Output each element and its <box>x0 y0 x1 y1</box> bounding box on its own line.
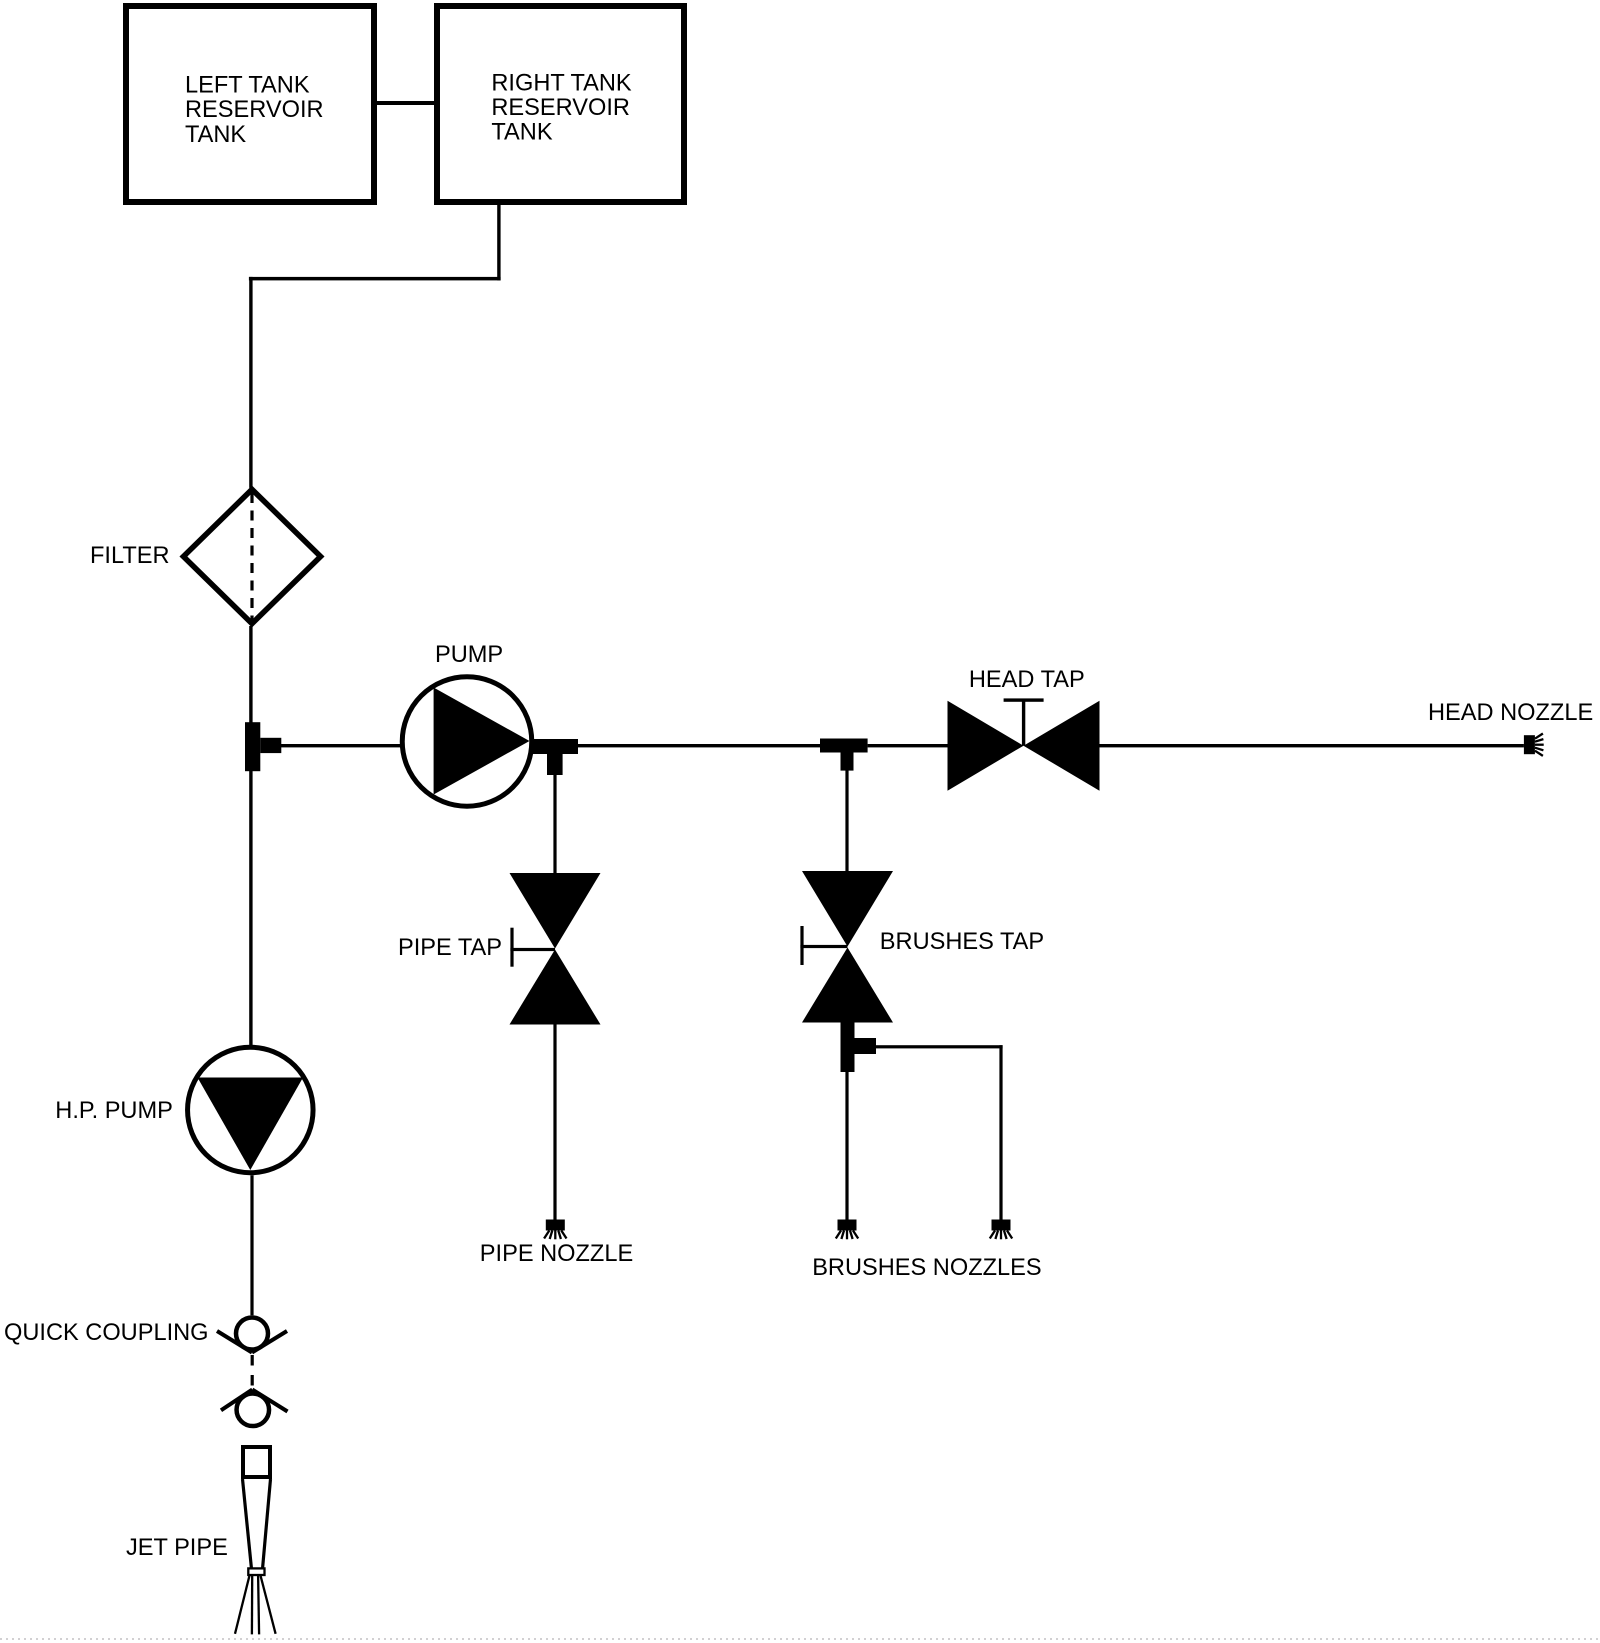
jet pipe body <box>243 1447 271 1569</box>
jet pipe tip <box>248 1568 264 1575</box>
wire: pipe tap to pipe nozzle <box>553 1025 556 1220</box>
quick coupling upper half <box>217 1318 287 1353</box>
tee junction T1 <box>245 722 281 771</box>
left tank box <box>126 6 374 202</box>
wire: left brush branch down <box>845 1072 848 1220</box>
svg-text:FILTER: FILTER <box>90 543 170 569</box>
svg-text:PUMP: PUMP <box>435 642 503 668</box>
wire: elbow horizontal <box>249 277 501 281</box>
wire: coupling dashed link <box>251 1355 254 1390</box>
svg-text:BRUSHES TAP: BRUSHES TAP <box>880 929 1044 955</box>
wire: pump tee to tee T3 <box>578 744 820 747</box>
svg-text:HEAD NOZZLE: HEAD NOZZLE <box>1428 700 1593 726</box>
H.P. pump P2 <box>188 1047 313 1173</box>
svg-text:HEAD TAP: HEAD TAP <box>969 667 1085 693</box>
tee junction T3 (brushes branch) <box>820 739 868 771</box>
wire: head tap to head nozzle <box>1100 744 1524 747</box>
wire: filter to H.P. pump <box>249 626 252 1045</box>
pipe nozzle N2 <box>544 1220 566 1240</box>
wire: H.P. pump to quick coupling <box>250 1175 253 1315</box>
pump P1 <box>402 677 532 807</box>
wire: down to filter <box>249 277 252 488</box>
page bottom dotted edge <box>0 1638 1600 1640</box>
svg-text:QUICK COUPLING: QUICK COUPLING <box>4 1320 209 1346</box>
tee junction T4 (below brushes tap) <box>841 1023 877 1073</box>
valve V2 PIPE TAP <box>510 873 601 1025</box>
svg-text:PIPE TAP: PIPE TAP <box>398 935 502 961</box>
brush nozzle N3 (left) <box>836 1220 858 1240</box>
svg-text:BRUSHES NOZZLES: BRUSHES NOZZLES <box>812 1255 1041 1281</box>
svg-text:PIPE NOZZLE: PIPE NOZZLE <box>480 1241 633 1267</box>
tee junction T2 (pump outlet) <box>532 739 578 775</box>
wire: tee T3 to head tap <box>868 744 948 747</box>
wire: tank-to-tank link <box>377 101 434 105</box>
head nozzle N1 <box>1524 734 1544 756</box>
valve V1 HEAD TAP <box>948 698 1100 790</box>
filter F1 <box>183 489 320 623</box>
right tank box <box>437 6 684 202</box>
wire: right tank drop <box>497 204 500 280</box>
wire: right brush branch vertical <box>999 1045 1002 1219</box>
jet pipe spray lines <box>235 1576 276 1635</box>
svg-text:JET PIPE: JET PIPE <box>126 1535 228 1561</box>
wire: tee T3 down to brushes tap <box>845 770 848 871</box>
wire: pump tee down to pipe tap <box>553 775 556 873</box>
wire: right brush branch horizontal <box>876 1045 1003 1048</box>
wire: tee T1 to pump <box>281 744 403 747</box>
quick coupling lower half <box>221 1390 288 1427</box>
valve V3 BRUSHES TAP <box>800 871 893 1023</box>
svg-text:H.P. PUMP: H.P. PUMP <box>55 1098 173 1124</box>
brush nozzle N4 (right) <box>990 1220 1012 1240</box>
